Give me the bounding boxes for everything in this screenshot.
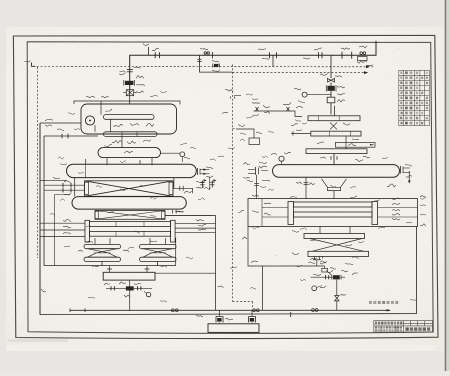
sight glass SG3 <box>322 268 328 272</box>
annotation text 蒸汽水排水装置 <box>369 301 398 304</box>
cooler connectors <box>333 106 335 116</box>
solenoid valve on dashed line <box>214 64 219 67</box>
V1 right nozzle detail <box>197 168 199 175</box>
flanged riser pair <box>202 181 204 188</box>
right bundle flanges <box>288 202 294 225</box>
bellows/motor unit B1 <box>84 245 121 249</box>
dashed arrows <box>366 65 370 68</box>
compressor M1 <box>85 116 94 125</box>
expansion valve bracket <box>236 129 254 138</box>
bundle left taps <box>262 207 288 209</box>
right cooler tube U3 <box>306 149 367 154</box>
condenser vessel V1 <box>67 164 197 177</box>
pump P1 <box>216 317 223 323</box>
PG3 gauge <box>279 156 284 161</box>
bundle tube row 1 <box>90 221 171 226</box>
valve flange pair V-a <box>154 52 156 58</box>
V1 drain bracket <box>174 178 193 194</box>
misc handwritten annotations <box>50 91 426 302</box>
strainer on drop <box>126 90 133 96</box>
top main pipe <box>130 41 376 94</box>
right tube bundle box <box>248 199 418 227</box>
spool bottom stubs <box>101 261 103 265</box>
liquid drop pipe <box>129 280 131 286</box>
bundle right taps <box>378 207 418 209</box>
bus valve 2 <box>253 309 256 312</box>
cooler tube T1 <box>104 115 155 120</box>
right bundle left drop <box>248 227 325 267</box>
liquid line w/ drier <box>106 287 152 289</box>
dashed line end tick <box>32 63 36 67</box>
dashed instrument line (main horizontal) <box>33 65 374 68</box>
scan bottom smudges <box>8 339 68 342</box>
V3 right nozzles <box>400 166 402 174</box>
pipe over enclosure <box>74 101 180 105</box>
sight glass gauge right <box>312 286 317 291</box>
outer border frame <box>13 35 438 338</box>
receiver tank R1 <box>103 272 155 280</box>
bus valve 3 <box>312 309 315 312</box>
dashed vertical (center) <box>232 65 234 302</box>
V3 left nozzles <box>255 167 257 175</box>
V3 bottom bracket <box>322 179 347 191</box>
water outlet riser <box>165 216 216 311</box>
bus valve 1 <box>171 309 174 312</box>
enclosure labels <box>113 124 123 126</box>
left supply risers <box>39 123 41 315</box>
filter drier FD1 (black) <box>126 286 134 290</box>
valve flange pair V-e <box>341 52 343 59</box>
dashed instrument line (secondary) <box>233 72 369 74</box>
valve circles V-b <box>204 52 206 54</box>
tube connectors <box>100 101 102 115</box>
bundle tube row 2 <box>90 231 171 236</box>
U3 side bar <box>335 142 375 147</box>
center drops <box>219 323 221 324</box>
dashed vertical (left) <box>37 67 39 258</box>
coil crossing X2 <box>95 211 165 220</box>
bundle side lines <box>40 222 85 224</box>
riser taps <box>40 122 81 124</box>
V2 drain nozzle <box>172 210 174 214</box>
V1 left inlet <box>40 179 66 181</box>
filter drier FD2 (black) <box>333 275 340 279</box>
inner border frame <box>27 42 433 334</box>
X crossing <box>310 239 364 252</box>
right cooler tube U2 <box>311 131 361 136</box>
scan right edge shadow <box>445 0 447 371</box>
parts list table <box>399 70 430 125</box>
tube bundle header flanges <box>85 220 90 242</box>
U2 feed line <box>291 132 311 134</box>
bellows/motor unit B2 <box>140 245 177 249</box>
right liquid line <box>311 276 334 278</box>
sight glass gauge <box>146 292 150 296</box>
table cell text marks <box>400 71 428 124</box>
valve pair to X1 (lower) <box>44 189 85 191</box>
receiver outlet line <box>155 272 216 274</box>
collector header line <box>44 265 176 267</box>
pump P2 <box>249 317 256 323</box>
right bundle tube 1 <box>294 202 373 207</box>
cooling water return main <box>70 309 390 311</box>
valve stub on pipe <box>147 47 149 55</box>
evaporator vessel V2 <box>72 197 186 210</box>
right condenser vessel V3 <box>273 165 400 178</box>
hand valve RV1 <box>328 79 335 83</box>
right branch drop pipe <box>330 55 332 78</box>
left drop to bus <box>129 291 131 312</box>
cooling water outer loop <box>40 123 417 315</box>
valve flange pair V-d <box>318 52 320 58</box>
scan speckles <box>47 41 424 294</box>
drop pipe labels <box>136 76 144 79</box>
valve station V-f <box>360 52 363 55</box>
title block text <box>375 322 431 332</box>
lower heat exchanger bar C2 <box>308 251 369 256</box>
compressor unit enclosure <box>81 104 177 134</box>
header drum D1 <box>98 148 161 158</box>
pipe labels <box>143 44 373 66</box>
title block <box>374 321 433 332</box>
solenoid valve S2 (black) <box>327 86 334 91</box>
valve flanges on drop pipe <box>127 69 133 71</box>
pressure gauge PG2 <box>302 92 307 97</box>
V2 left enclosure line <box>55 195 71 267</box>
branch drop to instrument line <box>272 55 274 66</box>
valve pair to X1 (upper) <box>44 184 85 186</box>
cooler tube T2 <box>104 132 158 137</box>
angle valve AV2 <box>335 296 339 301</box>
pressure gauge PG1 <box>180 152 185 157</box>
right cooler tube U1 <box>308 116 360 121</box>
right water drop <box>262 266 264 310</box>
solenoid valve S1 (black) <box>125 81 134 85</box>
flow tick on loop <box>290 312 292 317</box>
branch pipe to control <box>200 55 233 72</box>
coil crossing X1 <box>85 181 174 197</box>
bellows stubs <box>94 238 96 244</box>
right bundle tube 2 <box>294 212 373 217</box>
lower heat exchanger bar C1 <box>304 234 365 239</box>
valve flange pair V-c <box>269 52 271 58</box>
sight glass SG2 <box>327 97 335 103</box>
feed line with hand valves <box>254 111 303 117</box>
paper sheet <box>0 0 1 1</box>
water tank <box>208 324 259 333</box>
right liquid drop nozzles <box>314 257 316 260</box>
